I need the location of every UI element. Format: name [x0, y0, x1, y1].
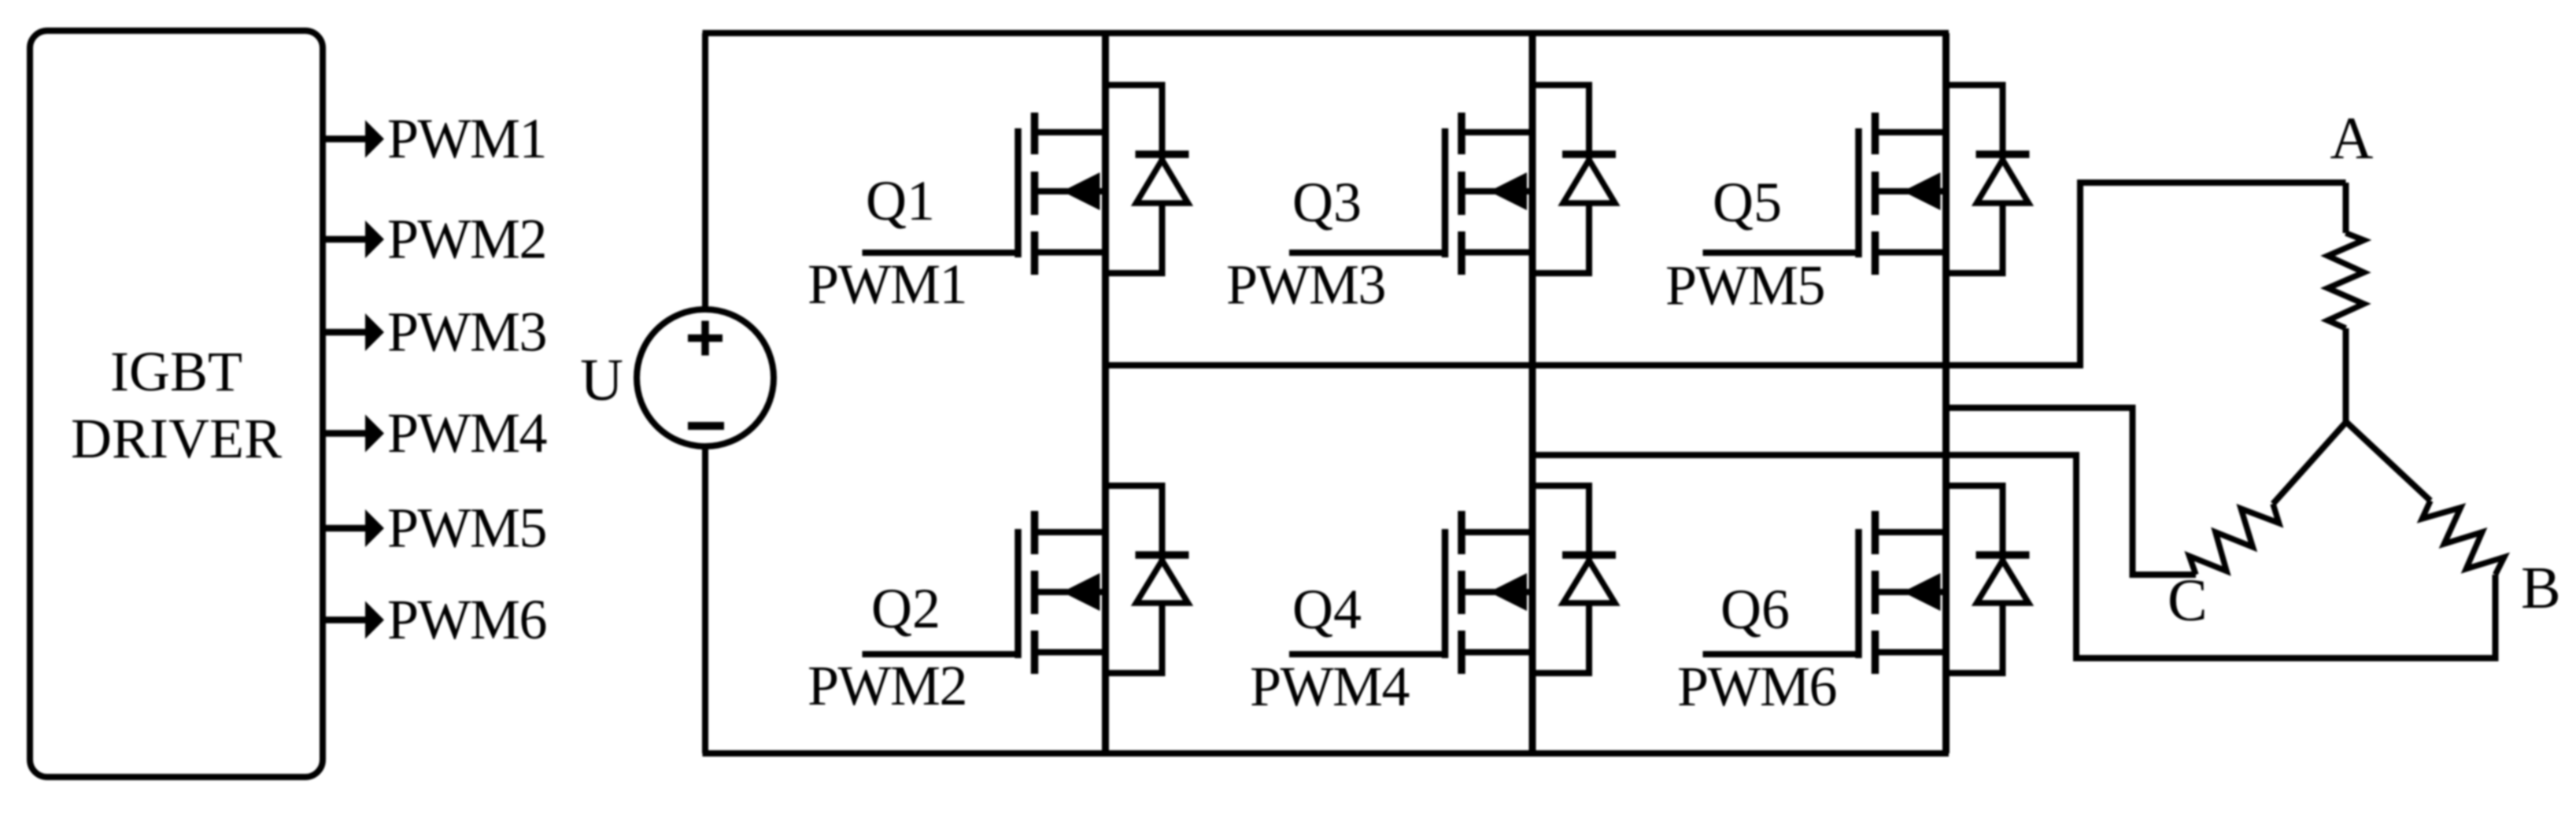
wire: gate lead PWM2 — [863, 651, 1018, 657]
diode D5 — [1946, 85, 2030, 273]
svg-text:Q5: Q5 — [1713, 171, 1782, 234]
svg-text:DRIVER: DRIVER — [71, 407, 282, 470]
PWM5 output arrow — [322, 497, 546, 560]
svg-text:C: C — [2168, 568, 2208, 634]
wire: gate lead PWM6 — [1703, 651, 1859, 657]
transistor Q4 — [1445, 511, 1532, 674]
svg-text:PWM5: PWM5 — [387, 497, 546, 560]
transistor Q5 — [1859, 113, 1946, 275]
diode D2 — [1106, 486, 1189, 673]
svg-text:PWM4: PWM4 — [1250, 655, 1410, 718]
PWM4 output arrow — [322, 401, 547, 464]
diode D6 — [1946, 486, 2030, 673]
wire: top DC bus — [703, 30, 1950, 36]
svg-text:PWM6: PWM6 — [387, 588, 546, 651]
PWM3 output arrow — [322, 301, 546, 364]
svg-text:A: A — [2330, 105, 2374, 172]
svg-text:PWM5: PWM5 — [1665, 254, 1824, 317]
svg-text:Q1: Q1 — [866, 169, 935, 232]
PWM2 output arrow — [322, 208, 546, 271]
resistor RB — [2346, 422, 2504, 575]
svg-text:Q2: Q2 — [871, 577, 941, 640]
svg-text:Q6: Q6 — [1720, 578, 1790, 641]
svg-text:PWM3: PWM3 — [1226, 253, 1385, 316]
svg-text:Q4: Q4 — [1292, 578, 1362, 641]
svg-text:PWM2: PWM2 — [387, 208, 546, 271]
voltage source U — [580, 309, 774, 446]
wire: gate lead PWM1 — [863, 250, 1018, 256]
wire: phase B output — [1532, 455, 2496, 658]
svg-text:Q3: Q3 — [1292, 171, 1362, 234]
svg-text:PWM1: PWM1 — [808, 253, 966, 316]
diode D1 — [1106, 85, 1189, 273]
wire: gate lead PWM4 — [1289, 651, 1445, 657]
svg-text:PWM2: PWM2 — [808, 654, 966, 717]
transistor Q1 — [1018, 113, 1106, 275]
svg-text:IGBT: IGBT — [110, 340, 242, 403]
wire: leg 2 vertical — [1529, 33, 1536, 753]
resistor RC — [2190, 422, 2346, 575]
wire: source to bottom bus — [702, 446, 708, 753]
IGBT driver block U0 — [30, 31, 323, 777]
svg-text:PWM1: PWM1 — [387, 107, 546, 170]
transistor Q3 — [1445, 113, 1532, 275]
wire: phase A output — [1106, 183, 2346, 365]
resistor RA — [2328, 183, 2364, 422]
svg-text:U: U — [580, 347, 623, 413]
wire: phase C output — [1946, 408, 2197, 575]
PWM1 output arrow — [322, 107, 546, 170]
wire: source to top bus — [702, 33, 708, 309]
wire: leg 1 vertical — [1102, 33, 1109, 753]
PWM6 output arrow — [322, 588, 546, 651]
wire: gate lead PWM5 — [1703, 250, 1859, 256]
svg-text:B: B — [2521, 555, 2561, 621]
diode D3 — [1532, 85, 1616, 273]
transistor Q2 — [1018, 511, 1106, 674]
wire: leg 3 vertical — [1942, 33, 1950, 753]
diode D4 — [1532, 486, 1616, 673]
svg-text:PWM3: PWM3 — [387, 301, 546, 364]
svg-text:PWM6: PWM6 — [1677, 655, 1836, 718]
wire: bottom DC bus — [703, 750, 1950, 757]
transistor Q6 — [1859, 511, 1946, 674]
wire: gate lead PWM3 — [1289, 250, 1445, 256]
svg-text:PWM4: PWM4 — [387, 401, 547, 464]
